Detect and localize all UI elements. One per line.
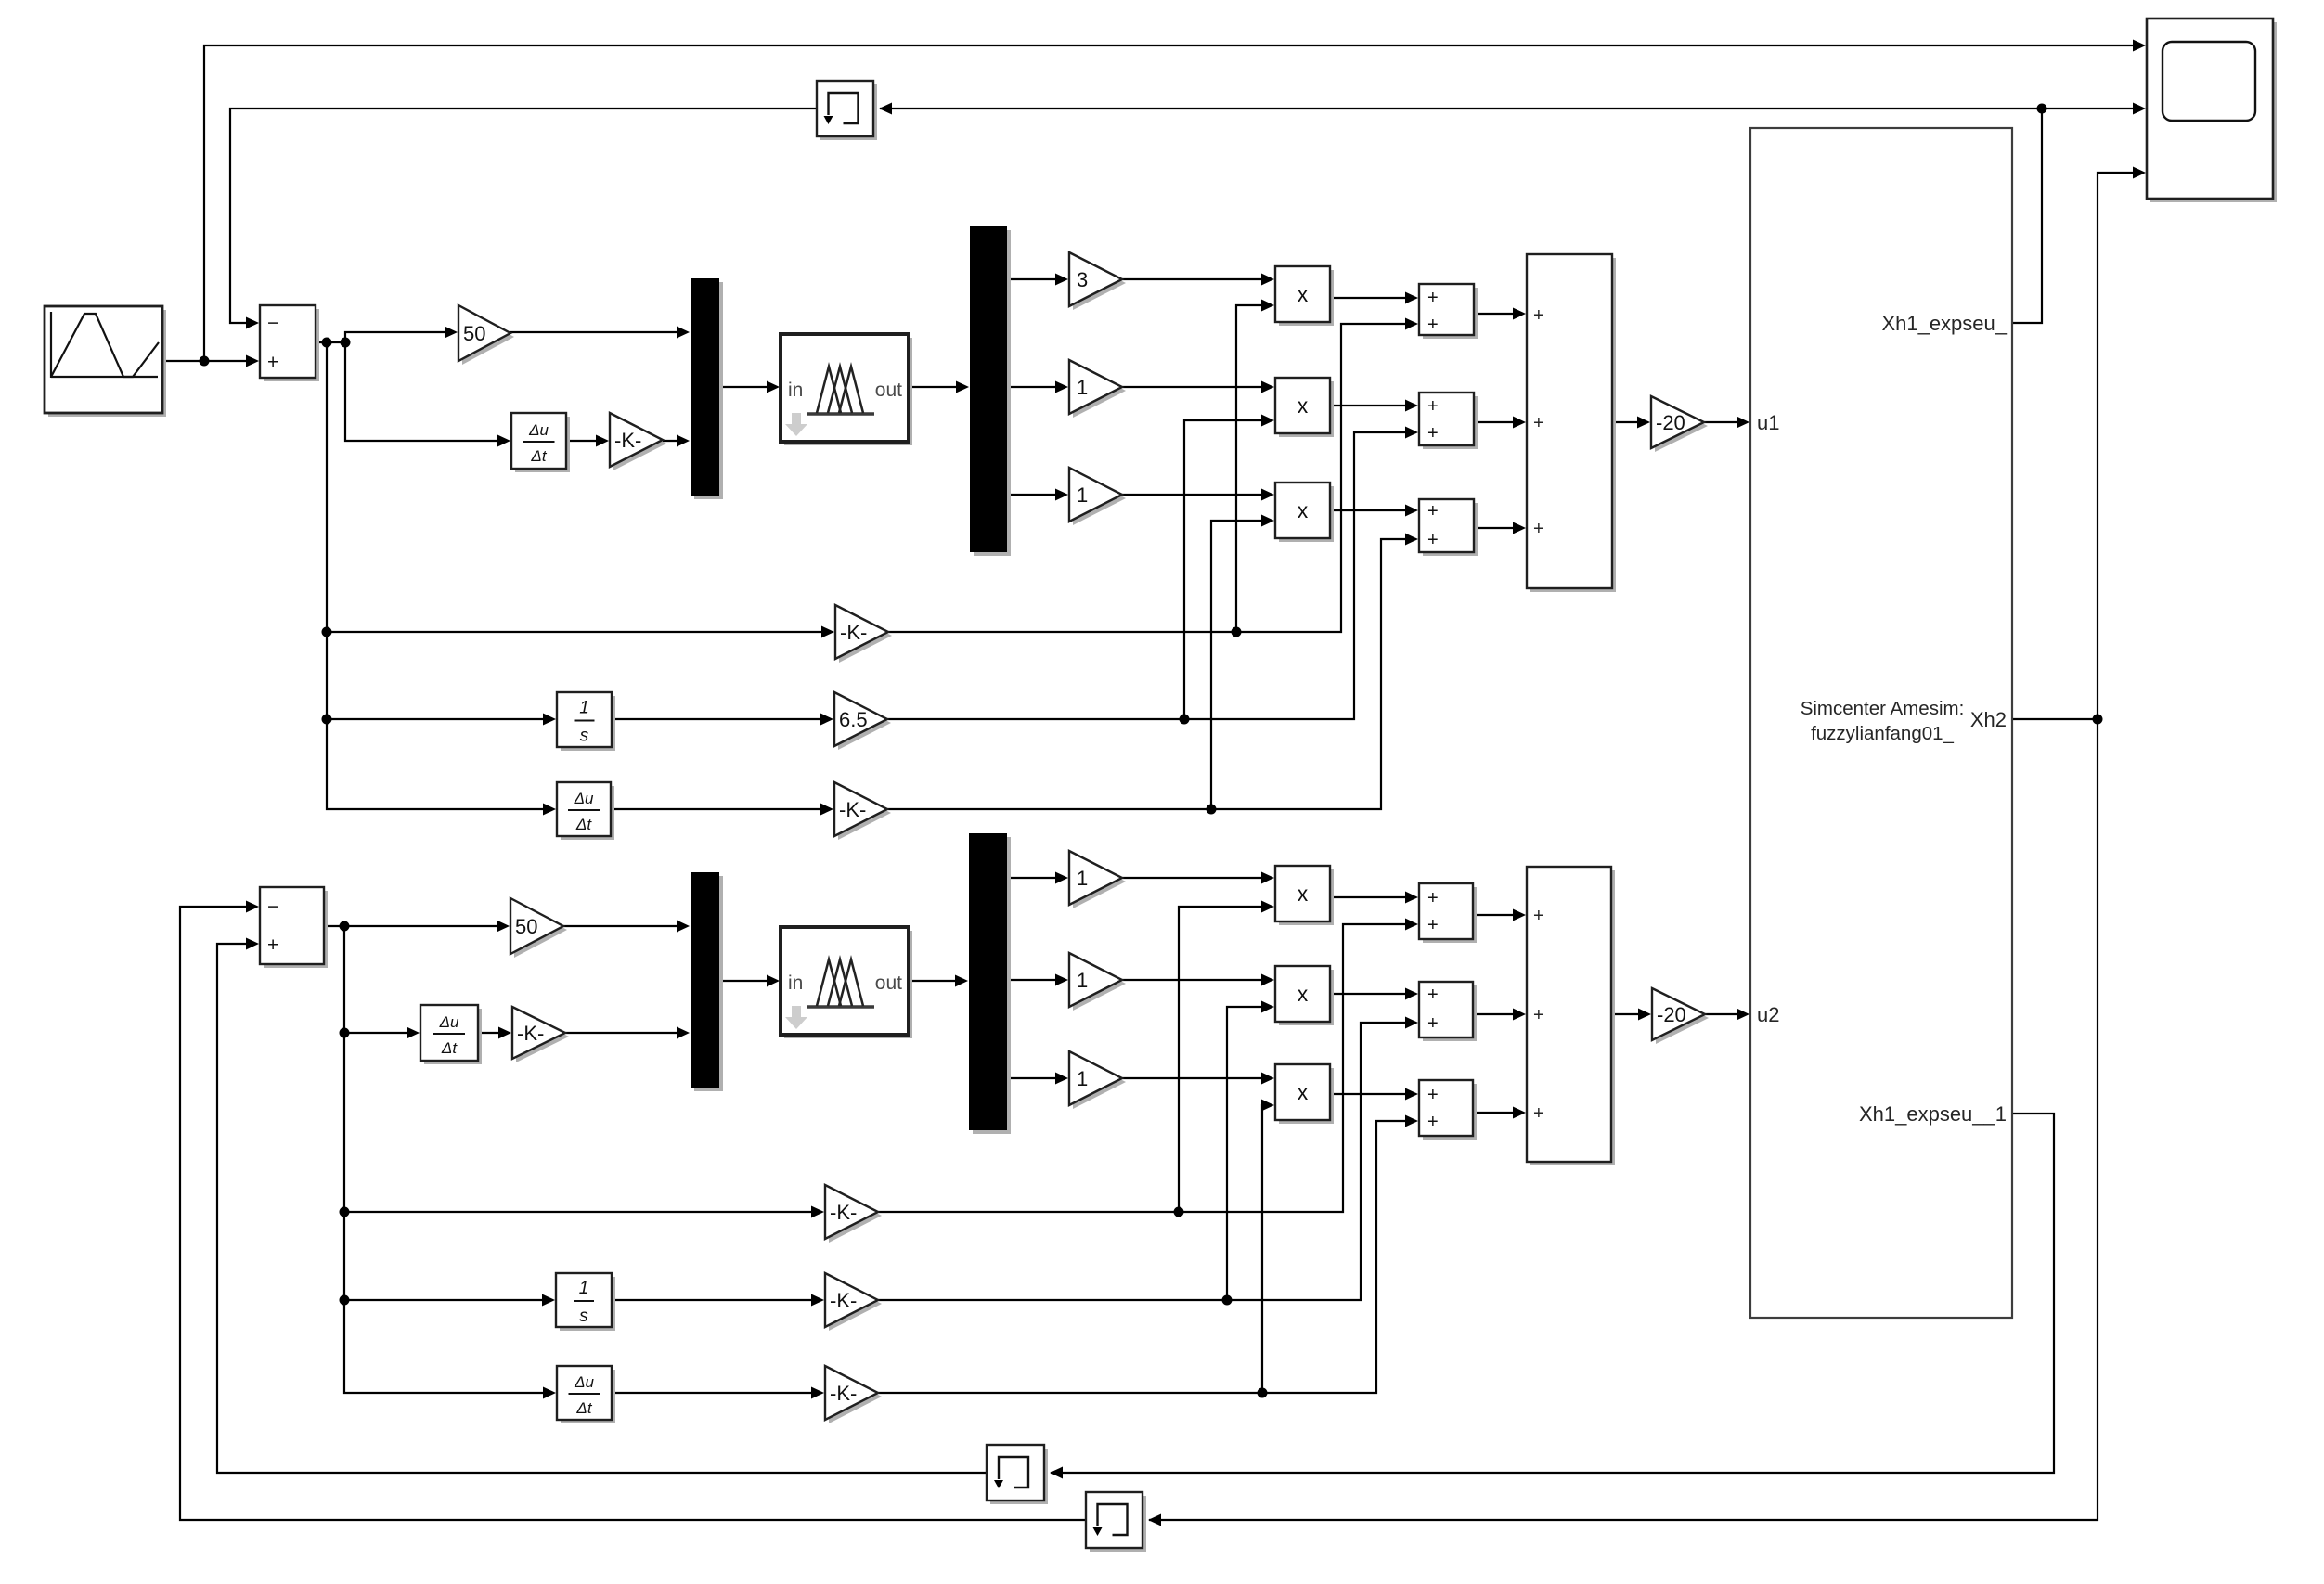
svg-text:3: 3 (1077, 268, 1088, 291)
svg-text:Δt: Δt (575, 1399, 592, 1417)
svg-text:-20: -20 (1656, 411, 1685, 434)
svg-text:1: 1 (1077, 867, 1088, 890)
svg-text:x: x (1298, 982, 1309, 1006)
svg-text:1: 1 (1077, 483, 1088, 507)
svg-text:+: + (1427, 915, 1439, 935)
svg-text:+: + (1427, 530, 1439, 550)
svg-text:Δt: Δt (441, 1039, 458, 1057)
svg-text:in: in (788, 380, 803, 401)
svg-text:-K-: -K- (517, 1022, 544, 1045)
svg-text:−: − (267, 896, 278, 918)
svg-text:Simcenter Amesim:: Simcenter Amesim: (1801, 698, 1965, 719)
svg-text:Δu: Δu (528, 421, 549, 439)
svg-text:+: + (1427, 1112, 1439, 1132)
svg-text:Δt: Δt (575, 816, 592, 833)
svg-text:-K-: -K- (840, 621, 867, 644)
svg-text:+: + (1533, 906, 1544, 926)
svg-text:u1: u1 (1757, 411, 1779, 434)
svg-text:+: + (1533, 1103, 1544, 1124)
svg-text:1: 1 (1077, 969, 1088, 992)
svg-text:s: s (580, 727, 589, 746)
svg-text:-20: -20 (1657, 1003, 1686, 1026)
svg-text:1: 1 (579, 699, 589, 718)
svg-text:Δt: Δt (530, 447, 547, 465)
svg-text:+: + (1427, 288, 1439, 308)
svg-text:x: x (1298, 393, 1309, 418)
svg-text:+: + (267, 352, 278, 373)
svg-text:-K-: -K- (830, 1289, 857, 1312)
svg-text:+: + (267, 934, 278, 956)
svg-text:+: + (1427, 1085, 1439, 1105)
svg-text:+: + (1427, 1013, 1439, 1034)
svg-text:+: + (1427, 423, 1439, 444)
svg-text:+: + (1427, 396, 1439, 417)
svg-text:-K-: -K- (830, 1201, 857, 1224)
svg-text:out: out (875, 972, 902, 994)
svg-text:Xh2: Xh2 (1970, 708, 2007, 731)
svg-text:−: − (267, 313, 278, 334)
svg-text:fuzzylianfang01_: fuzzylianfang01_ (1811, 723, 1954, 744)
svg-text:+: + (1427, 315, 1439, 335)
svg-text:6.5: 6.5 (839, 708, 868, 731)
svg-text:s: s (579, 1307, 588, 1326)
svg-text:50: 50 (463, 322, 485, 345)
svg-text:-K-: -K- (614, 429, 641, 452)
svg-text:+: + (1427, 888, 1439, 908)
svg-text:+: + (1533, 305, 1544, 326)
svg-text:+: + (1533, 1005, 1544, 1025)
svg-text:Δu: Δu (574, 1373, 594, 1391)
svg-text:Δu: Δu (439, 1013, 459, 1031)
svg-text:u2: u2 (1757, 1003, 1779, 1026)
svg-text:+: + (1427, 501, 1439, 522)
svg-text:x: x (1298, 1080, 1309, 1104)
svg-text:Xh1_expseu_: Xh1_expseu_ (1881, 312, 2007, 335)
svg-text:+: + (1533, 519, 1544, 539)
svg-text:Xh1_expseu__1: Xh1_expseu__1 (1859, 1102, 2007, 1126)
svg-text:Δu: Δu (574, 790, 594, 807)
svg-text:-K-: -K- (830, 1382, 857, 1405)
svg-text:1: 1 (579, 1279, 589, 1298)
svg-text:1: 1 (1077, 376, 1088, 399)
svg-text:x: x (1298, 498, 1309, 522)
svg-text:x: x (1298, 882, 1309, 906)
svg-text:out: out (875, 380, 902, 401)
svg-text:50: 50 (515, 915, 537, 938)
svg-text:-K-: -K- (839, 798, 866, 821)
svg-text:in: in (788, 972, 803, 994)
svg-text:1: 1 (1077, 1067, 1088, 1090)
svg-text:+: + (1427, 985, 1439, 1005)
svg-text:x: x (1298, 282, 1309, 306)
svg-text:+: + (1533, 413, 1544, 433)
